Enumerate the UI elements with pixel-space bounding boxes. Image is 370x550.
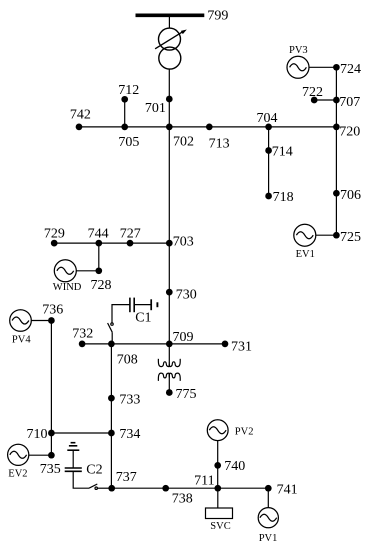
node 740 (214, 462, 221, 469)
node 712 (121, 96, 128, 103)
svg-text:WIND: WIND (53, 282, 82, 293)
node 720 (333, 124, 340, 131)
wire 741 to PV1 (267, 488, 269, 507)
svg-text:C1: C1 (135, 311, 151, 326)
node 713 (206, 124, 213, 131)
svg-text:PV2: PV2 (235, 427, 254, 438)
svg-text:730: 730 (176, 288, 197, 303)
svg-text:702: 702 (173, 135, 194, 150)
svg-text:714: 714 (272, 145, 293, 160)
wire 711 to SVC (217, 488, 219, 508)
svg-text:740: 740 (224, 459, 245, 474)
wire 744 to 728 (98, 243, 100, 271)
svg-text:713: 713 (209, 137, 230, 152)
wire 708-733-734-737 (110, 344, 112, 488)
node 738 (162, 485, 169, 492)
node 775 (166, 389, 173, 396)
source PV3 (287, 56, 309, 78)
node 736 (48, 317, 55, 324)
node 733 (108, 395, 115, 402)
wire EV1 to 725 (316, 234, 337, 236)
svg-text:736: 736 (42, 302, 63, 317)
svg-text:SVC: SVC (210, 521, 230, 532)
svg-text:PV1: PV1 (259, 533, 278, 544)
node 741 (265, 485, 272, 492)
svg-text:732: 732 (72, 327, 93, 342)
capacitor C2 (65, 468, 82, 471)
wire C2 bottom lead (73, 471, 89, 488)
node 728 (95, 267, 102, 274)
source EV2 (8, 444, 29, 465)
node 702 (166, 124, 173, 131)
node 706 (333, 190, 340, 197)
source WIND (54, 260, 76, 282)
node 701 (166, 96, 173, 103)
svg-text:741: 741 (277, 483, 298, 498)
svg-text:731: 731 (231, 340, 252, 355)
node 730 (166, 289, 173, 296)
wire 710 to 734 (51, 432, 111, 434)
svg-text:725: 725 (340, 230, 361, 245)
bus 799 (136, 14, 205, 18)
svg-text:737: 737 (116, 470, 137, 485)
svg-text:708: 708 (117, 353, 138, 368)
node 722 (311, 97, 318, 104)
wire PV3 to 724 (309, 66, 337, 68)
node 703 (166, 240, 173, 247)
node 707 (333, 97, 340, 104)
svg-text:707: 707 (339, 95, 360, 110)
svg-text:709: 709 (173, 330, 194, 345)
node 711 (214, 485, 221, 492)
wire left column 736-710-735 (50, 321, 52, 456)
node 742 (76, 124, 83, 131)
transformer XFM1 (709 to 775) (168, 344, 170, 363)
node 734 (108, 430, 115, 437)
node 718 (265, 193, 272, 200)
svg-text:735: 735 (40, 462, 61, 477)
source PV2 (207, 420, 228, 441)
svg-text:EV1: EV1 (296, 249, 315, 260)
wire 704-714-718 (268, 127, 270, 196)
SVC device (206, 508, 233, 519)
svg-text:722: 722 (302, 85, 323, 100)
node 705 (121, 124, 128, 131)
C1 terminal bars (150, 299, 152, 310)
svg-text:EV2: EV2 (8, 469, 27, 480)
svg-text:724: 724 (340, 62, 361, 77)
wire 712 to 705 (124, 99, 126, 127)
capacitor C1 (130, 298, 134, 313)
wire regulator to 702 (168, 69, 170, 127)
node 709 (166, 341, 173, 348)
node 735 (48, 452, 55, 459)
node 714 (265, 147, 272, 154)
wire 729-744-727-703 (54, 242, 169, 244)
wire PV4 to 736 (31, 320, 51, 322)
svg-text:PV3: PV3 (289, 45, 308, 56)
svg-text:C2: C2 (86, 463, 102, 478)
wire 732-708-709-731 (82, 343, 225, 345)
regulator U1 (voltage regulator between 799 and 701) (155, 28, 187, 69)
svg-text:720: 720 (339, 125, 360, 140)
wire main vertical 702-703-730-709 (168, 127, 170, 344)
node dots (48, 64, 340, 492)
node 732 (79, 341, 86, 348)
svg-text:706: 706 (340, 188, 361, 203)
wire C2 top lead (72, 450, 74, 468)
wire bottom 737-738-711-741 (112, 487, 269, 489)
svg-text:734: 734 (119, 427, 140, 442)
node 725 (333, 232, 340, 239)
svg-text:701: 701 (145, 101, 166, 116)
wire EV2 to 735 (29, 454, 52, 456)
svg-text:704: 704 (257, 111, 278, 126)
switch S1 (C1 branch) (111, 332, 113, 344)
wire switch to 737 (97, 487, 111, 489)
svg-text:705: 705 (118, 135, 139, 150)
svg-text:799: 799 (207, 9, 228, 24)
wire WIND to 728 (76, 270, 99, 272)
source PV4 (10, 310, 32, 332)
svg-text:727: 727 (120, 226, 141, 241)
svg-text:733: 733 (119, 393, 140, 408)
node 727 (127, 240, 134, 247)
wire main horizontal 742-705-702-713-704-720 (79, 126, 336, 128)
svg-text:744: 744 (88, 226, 109, 241)
node 704 (265, 124, 272, 131)
node 724 (333, 64, 340, 71)
svg-text:742: 742 (70, 108, 91, 123)
node 731 (222, 341, 229, 348)
wire PV2-740-711 (217, 441, 219, 489)
capacitor C2 terminal bars (71, 442, 76, 444)
node 708 (108, 341, 115, 348)
svg-text:775: 775 (176, 387, 197, 402)
wire bus to regulator (168, 17, 170, 28)
svg-text:703: 703 (173, 235, 194, 250)
svg-text:710: 710 (27, 427, 48, 442)
svg-text:712: 712 (118, 83, 139, 98)
wire right column 724-707-720-706-725 (335, 67, 337, 235)
svg-text:711: 711 (194, 474, 214, 489)
node 744 (95, 240, 102, 247)
source EV1 (294, 224, 316, 246)
svg-text:PV4: PV4 (12, 334, 31, 345)
svg-text:728: 728 (91, 278, 112, 293)
node 729 (51, 240, 58, 247)
wire 722 to 707 (314, 99, 336, 101)
source PV1 (258, 508, 278, 528)
svg-text:738: 738 (172, 492, 193, 507)
switch S2 (C2 branch) (89, 484, 97, 488)
wire switch to C1 (112, 305, 130, 323)
svg-text:729: 729 (44, 226, 65, 241)
node 710 (48, 430, 55, 437)
svg-text:718: 718 (273, 190, 294, 205)
node 737 (108, 485, 115, 492)
